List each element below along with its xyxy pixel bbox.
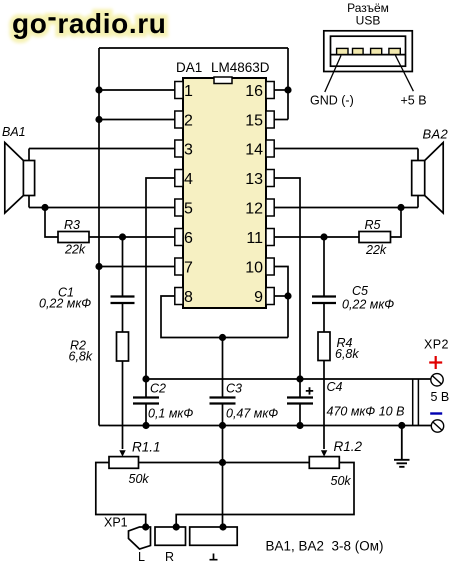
svg-text:USB: USB: [356, 14, 381, 28]
capacitor C5: [312, 297, 336, 304]
wire C5 to R4 chain: [323, 237, 325, 332]
label L: [138, 550, 145, 564]
wire pin 13 to top rail: [274, 178, 300, 379]
svg-text:C5: C5: [352, 284, 368, 298]
svg-text:5: 5: [184, 201, 193, 218]
label DA1: [176, 60, 202, 75]
wire C2 stubs: [145, 379, 147, 426]
label XP2: [424, 338, 449, 352]
logo go-radio.ru: [12, 1, 166, 39]
label C4: [327, 380, 405, 419]
svg-text:16: 16: [245, 83, 263, 100]
svg-text:0,22 мкФ: 0,22 мкФ: [342, 298, 394, 312]
svg-text:LM4863D: LM4863D: [211, 60, 270, 75]
svg-text:11: 11: [246, 230, 263, 247]
wire pin 11 to R5: [274, 236, 359, 238]
pin 7: [175, 258, 193, 277]
label 5 V: [431, 390, 450, 404]
pin 12: [245, 199, 274, 218]
minus mark blue: [430, 412, 442, 414]
svg-text:6,8k: 6,8k: [69, 350, 93, 364]
svg-text:12: 12: [245, 201, 263, 218]
wire top link pins 15-16 to left bus: [99, 47, 288, 49]
label R: [165, 550, 174, 564]
wire pin 9: [274, 295, 288, 297]
resistor R5: [359, 218, 391, 257]
svg-text:2: 2: [184, 113, 193, 130]
svg-text:6,8k: 6,8k: [335, 347, 359, 361]
connector XP2 mating lines: [413, 379, 419, 426]
svg-text:0,22 мкФ: 0,22 мкФ: [39, 297, 91, 311]
svg-text:10: 10: [245, 260, 263, 277]
svg-text:+5 В: +5 В: [401, 94, 427, 108]
label BA1: [2, 125, 26, 139]
IC DA1 LM4863D body: [183, 77, 266, 308]
screw terminal plus: [431, 374, 443, 386]
svg-text:XP1: XP1: [104, 516, 128, 530]
wire left bus: [98, 48, 100, 426]
svg-text:5 В: 5 В: [431, 390, 450, 404]
wire R2 to R1.1 wiper: [122, 361, 124, 449]
wire R1.1 left to XP1 tip: [96, 463, 146, 528]
connector XP1 ring: [155, 527, 186, 545]
pin 11: [246, 229, 274, 248]
label GND: [310, 94, 354, 108]
svg-text:8: 8: [184, 289, 193, 306]
pin 16: [245, 82, 274, 101]
wire pin 16: [274, 89, 288, 91]
svg-text:7: 7: [184, 260, 193, 277]
svg-text:50k: 50k: [129, 472, 150, 486]
pin 15: [245, 111, 274, 130]
svg-text:470 мкФ 10 В: 470 мкФ 10 В: [327, 405, 405, 419]
speaker BA1: [5, 143, 35, 214]
USB GND leader line: [325, 56, 341, 93]
pin 6: [175, 229, 193, 248]
svg-text:C2: C2: [150, 382, 166, 396]
pin 4: [175, 170, 193, 189]
wire BA1 terminals: [28, 149, 30, 208]
label C3: [226, 382, 278, 421]
svg-text:9: 9: [254, 289, 263, 306]
label +5V: [401, 94, 427, 108]
wire bottom rail: [99, 425, 431, 427]
wire C1 to R2 chain: [122, 237, 124, 332]
wire R3 branch from BA1: [45, 208, 58, 238]
resistor R2: [69, 332, 129, 364]
wire pin 8 under IC: [161, 296, 288, 338]
svg-text:GND (-): GND (-): [310, 94, 354, 108]
wire pin 12 to BA2: [274, 207, 418, 209]
svg-text:R: R: [165, 550, 174, 564]
pin 10: [245, 258, 274, 277]
wire pin 14 to BA2: [274, 148, 418, 150]
connector XP1 jack plug tip: [129, 527, 151, 549]
svg-text:R1.1: R1.1: [132, 440, 161, 455]
pin 5: [175, 199, 193, 218]
wire pin 7 to left bus: [99, 266, 175, 268]
wire right top drop to pin 15: [287, 48, 289, 120]
pin 1: [175, 82, 193, 101]
capacitor C1: [111, 297, 135, 304]
wire C3 bus lower to XP1 sleeve: [222, 404, 224, 528]
wire pin 6 to R3: [89, 236, 175, 238]
svg-text:22k: 22k: [365, 243, 387, 257]
wire pin 1: [99, 89, 175, 91]
svg-text:XP2: XP2: [424, 338, 449, 352]
svg-text:22k: 22k: [64, 243, 86, 257]
wire pin 10 right drop: [274, 267, 288, 338]
wire C3 bus upper: [222, 338, 224, 398]
wire pin 3 to BA1: [29, 148, 175, 150]
capacitor C3: [210, 398, 236, 404]
wire R1.1 right to R1.2 left: [139, 462, 310, 464]
svg-text:13: 13: [245, 171, 263, 188]
pin 13: [245, 170, 274, 189]
svg-text:15: 15: [245, 113, 263, 130]
svg-text:6: 6: [184, 230, 193, 247]
wire pin 15: [274, 119, 288, 121]
pin 8: [175, 288, 193, 307]
label sleeve common: [210, 554, 218, 560]
svg-text:R5: R5: [365, 218, 381, 232]
wire C4 stubs: [299, 379, 301, 426]
speaker BA2: [412, 143, 444, 214]
label C5: [342, 284, 394, 312]
label Razyom USB: [347, 1, 389, 28]
svg-text:50k: 50k: [331, 474, 352, 488]
wire R1.2 right to XP1 ring: [176, 463, 354, 528]
svg-text:go-radio.ru: go-radio.ru: [12, 1, 166, 39]
wire pin 2: [99, 119, 175, 121]
ground: [394, 426, 410, 467]
label C1: [39, 286, 91, 311]
USB pads: [337, 48, 401, 54]
svg-text:R3: R3: [64, 218, 80, 232]
pin 2: [175, 111, 193, 130]
label BA2: [423, 127, 449, 142]
pin 9: [254, 288, 274, 307]
wire pin 5 to BA1: [29, 207, 175, 209]
svg-text:R1.2: R1.2: [334, 439, 363, 454]
resistor R3: [58, 218, 89, 257]
svg-text:1: 1: [184, 83, 193, 100]
capacitor C4 polarized: [287, 387, 313, 403]
resistor R4: [318, 332, 359, 361]
svg-text:BA2: BA2: [423, 127, 449, 142]
potentiometer R1.1: [109, 440, 161, 487]
svg-text:BA1: BA1: [2, 125, 26, 139]
label XP1: [104, 516, 128, 530]
connector XP1 sleeve: [190, 527, 238, 545]
svg-text:0,47 мкФ: 0,47 мкФ: [226, 407, 278, 421]
wire R4 to R1.2 wiper: [323, 361, 325, 450]
svg-text:3: 3: [184, 142, 193, 159]
screw terminal minus: [431, 420, 443, 432]
svg-text:DA1: DA1: [176, 60, 202, 75]
wire top rail: [146, 378, 431, 380]
capacitor C2: [133, 398, 159, 404]
label C2: [148, 382, 193, 421]
svg-text:L: L: [138, 550, 145, 564]
svg-text:0,1 мкФ: 0,1 мкФ: [148, 407, 193, 421]
svg-text:14: 14: [245, 142, 263, 159]
svg-text:C3: C3: [226, 382, 242, 396]
svg-text:BA1, BA2 3-8 (Ом): BA1, BA2 3-8 (Ом): [266, 539, 384, 554]
svg-text:C4: C4: [327, 380, 343, 394]
potentiometer R1.2: [309, 439, 362, 488]
pin 3: [175, 140, 193, 159]
pin 14: [245, 140, 274, 159]
USB +5V leader line: [396, 56, 414, 92]
wire BA2 terminals: [417, 149, 419, 208]
label LM4863D: [211, 60, 270, 75]
wire R5 branch from BA2: [391, 208, 402, 238]
USB connector body: [324, 31, 413, 72]
svg-text:4: 4: [184, 171, 193, 188]
wire pin 4 to top rail: [146, 178, 175, 379]
plus mark red: [429, 356, 442, 369]
note BA1 BA2 impedance: [266, 539, 384, 554]
